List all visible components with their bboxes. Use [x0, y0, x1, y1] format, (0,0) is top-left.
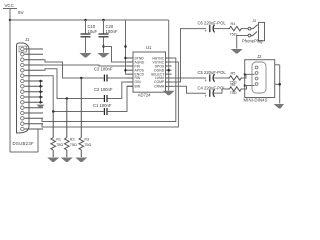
svg-text:J2: J2 [257, 54, 262, 59]
svg-text:5V: 5V [18, 10, 25, 15]
svg-text:100nF: 100nF [106, 29, 118, 34]
svg-text:J1: J1 [25, 37, 30, 42]
svg-text:10uF: 10uF [88, 29, 98, 34]
svg-text:R3: R3 [84, 138, 89, 142]
svg-text:C6 220uF-POL: C6 220uF-POL [198, 21, 227, 26]
svg-text:R1: R1 [56, 138, 61, 142]
svg-text:+: + [205, 94, 208, 99]
svg-text:DSUB23F: DSUB23F [13, 141, 35, 146]
svg-text:U1: U1 [146, 45, 152, 50]
svg-text:C1 100nF: C1 100nF [93, 103, 112, 108]
svg-text:MINI-DIN4S: MINI-DIN4S [244, 98, 268, 103]
svg-text:J3: J3 [252, 19, 256, 23]
svg-text:75Ω: 75Ω [230, 91, 237, 95]
svg-text:BIN: BIN [135, 85, 141, 89]
svg-text:75Ω: 75Ω [56, 143, 63, 147]
svg-text:C5 220uF-POL: C5 220uF-POL [198, 70, 227, 75]
svg-text:R4: R4 [231, 22, 236, 26]
svg-text:VCC: VCC [5, 3, 14, 8]
svg-text:75Ω: 75Ω [84, 143, 91, 147]
svg-text:+: + [205, 29, 208, 34]
svg-text:75Ω: 75Ω [230, 33, 237, 37]
svg-text:C3 100nF: C3 100nF [94, 67, 113, 72]
svg-text:R5: R5 [231, 72, 236, 76]
svg-text:PhonePlug: PhonePlug [242, 39, 263, 44]
svg-text:+: + [205, 78, 208, 83]
svg-text:AD724: AD724 [138, 93, 151, 98]
svg-text:C2 100nF: C2 100nF [94, 87, 113, 92]
svg-text:75Ω: 75Ω [70, 143, 77, 147]
svg-text:R2: R2 [70, 138, 75, 142]
svg-text:CRMA: CRMA [154, 85, 165, 89]
